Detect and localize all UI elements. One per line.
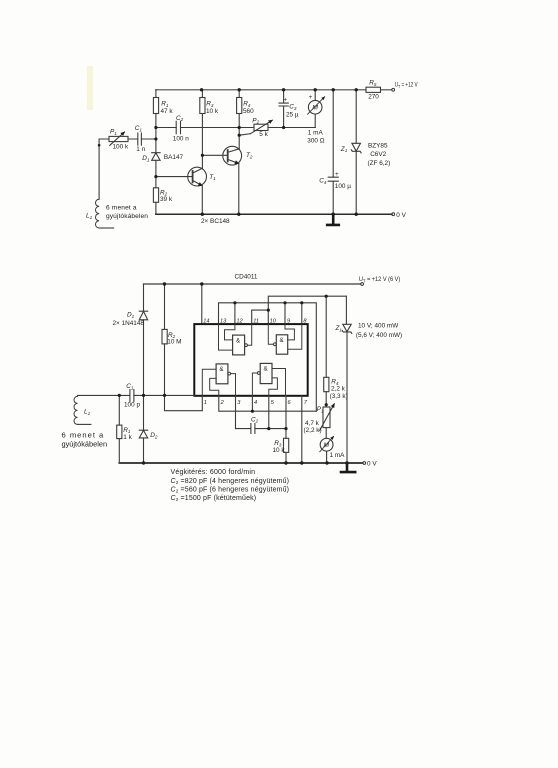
svg-text:C2 =1500 pF (kétüteműek): C2 =1500 pF (kétüteműek) <box>171 495 257 502</box>
svg-text:CD4011: CD4011 <box>235 274 258 281</box>
svg-text:10: 10 <box>270 318 277 324</box>
svg-text:C2 =560 pF (6 hengeres négyü: C2 =560 pF (6 hengeres négyütemű) <box>171 486 290 493</box>
svg-text:M: M <box>312 105 318 112</box>
svg-text:100 n: 100 n <box>173 135 189 142</box>
svg-text:100 µ: 100 µ <box>335 183 351 190</box>
svg-text:300 Ω: 300 Ω <box>307 137 324 144</box>
svg-text:1 mA: 1 mA <box>308 129 324 136</box>
svg-text:0 V: 0 V <box>367 461 377 468</box>
svg-text:C2 =820 pF (4 hengeres négyüt: C2 =820 pF (4 hengeres négyütemű) <box>171 478 290 485</box>
svg-text:11: 11 <box>253 318 259 324</box>
svg-text:39 k: 39 k <box>160 196 173 203</box>
svg-text:25 µ: 25 µ <box>286 112 299 119</box>
svg-text:+: + <box>335 171 339 178</box>
svg-text:6 menet a: 6 menet a <box>106 204 137 211</box>
svg-text:14: 14 <box>203 318 209 324</box>
svg-text:2,2 k: 2,2 k <box>331 385 346 392</box>
svg-text:1 n: 1 n <box>136 146 145 153</box>
svg-text:2× 1N4148: 2× 1N4148 <box>113 320 145 327</box>
svg-text:BZY85: BZY85 <box>368 143 388 150</box>
svg-text:13: 13 <box>220 318 227 324</box>
svg-text:1 k: 1 k <box>123 434 132 441</box>
svg-text:(2,2 k): (2,2 k) <box>304 427 322 434</box>
svg-text:5 k: 5 k <box>259 131 268 138</box>
svg-text:100 k: 100 k <box>113 144 129 151</box>
svg-text:gyújtókábelen: gyújtókábelen <box>106 213 148 220</box>
svg-text:4,7 k: 4,7 k <box>305 420 320 427</box>
svg-text:1: 1 <box>204 400 207 406</box>
svg-text:560: 560 <box>243 108 254 115</box>
svg-text:+: + <box>284 98 288 104</box>
svg-text:0 V: 0 V <box>396 212 406 219</box>
svg-text:1 mA: 1 mA <box>330 452 346 459</box>
svg-text:47 k: 47 k <box>161 108 174 115</box>
svg-text:12: 12 <box>236 318 243 324</box>
svg-text:BA147: BA147 <box>164 154 184 161</box>
svg-text:6 menet a: 6 menet a <box>62 430 105 439</box>
svg-text:270: 270 <box>368 93 379 100</box>
svg-text:2× BC148: 2× BC148 <box>201 218 230 225</box>
svg-text:10 V; 400 mW: 10 V; 400 mW <box>358 323 399 330</box>
svg-text:M: M <box>324 442 330 449</box>
svg-text:(ZF 6,2): (ZF 6,2) <box>368 160 391 167</box>
svg-text:UT = +12 V (6 V): UT = +12 V (6 V) <box>359 276 400 283</box>
svg-text:10 k: 10 k <box>206 108 219 115</box>
svg-text:Végkitérés: 6000 ford/min: Végkitérés: 6000 ford/min <box>171 469 256 476</box>
svg-text:(3,3 k): (3,3 k) <box>330 393 348 400</box>
svg-text:9: 9 <box>287 318 290 324</box>
svg-text:C6V2: C6V2 <box>370 151 386 158</box>
svg-text:10 k: 10 k <box>273 447 286 454</box>
svg-text:4: 4 <box>254 400 257 406</box>
svg-text:+: + <box>309 95 313 101</box>
svg-text:10 M: 10 M <box>167 339 181 346</box>
svg-text:gyújtókábelen: gyújtókábelen <box>62 439 108 448</box>
svg-text:(5,6 V; 400 mW): (5,6 V; 400 mW) <box>356 332 402 339</box>
svg-text:100 p: 100 p <box>124 401 140 408</box>
